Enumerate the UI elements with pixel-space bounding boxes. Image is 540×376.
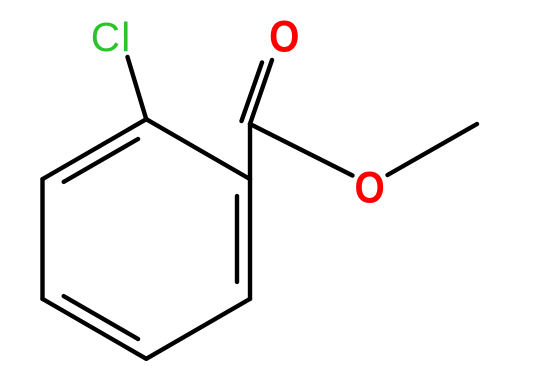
svg-text:O: O <box>269 11 299 61</box>
wire: benzene ring edge A-B (top-right) <box>146 119 250 179</box>
wire: carbonyl C=O double bond line 1 <box>250 60 272 124</box>
svg-text:O: O <box>355 162 385 212</box>
wire: benzene ring edge B-C (right) <box>248 179 252 299</box>
svg-text:Cl: Cl <box>91 14 132 60</box>
wire: benzene ring edge D-E (bottom-left) <box>43 299 147 359</box>
wire: benzene ring inner double of D-E <box>64 296 138 339</box>
wire: bond B to carbonyl carbon <box>248 124 252 179</box>
wire: benzene ring edge E-F (left) <box>40 179 44 299</box>
wire: bond A to Cl <box>128 57 147 119</box>
wire: bond ester O to methyl C <box>388 124 478 175</box>
wire: benzene ring edge C-D (bottom-right) <box>146 299 250 359</box>
wire: benzene ring inner double of B-C <box>235 196 239 282</box>
wire: benzene ring edge F-A (top-left) <box>43 119 147 179</box>
wire: bond carbonyl C to ester O <box>250 124 353 176</box>
wire: benzene ring inner double of F-A <box>64 139 138 182</box>
wire: carbonyl C=O double bond line 2 <box>242 63 263 122</box>
